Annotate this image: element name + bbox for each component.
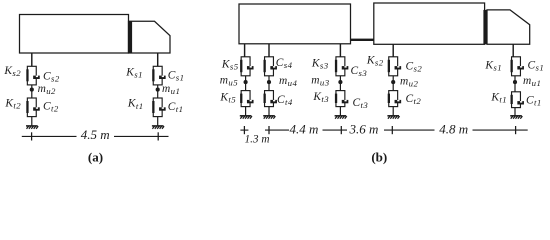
spring Ks2 + damper Cs2 unit box [27, 66, 36, 85]
spring Ks1 + damper Cs1 unit box [512, 57, 521, 76]
wire body to suspension axle 4 (fig b) [268, 44, 270, 57]
damper Ct2 cup [395, 100, 402, 103]
wire mass mu1 to tire unit (fig b) [514, 84, 516, 92]
unsprung mass mu4 (fig b) node [267, 80, 271, 84]
spring Kt4 thick bar [264, 94, 266, 103]
unsprung mass mu1 (fig b) node [513, 80, 517, 84]
dimension tick axle 2 (fig b) [391, 126, 393, 134]
spring Kt1 thick bar [511, 95, 513, 104]
wire tire unit to ground (fig b) [392, 107, 394, 116]
spring Ks1 + damper Cs1 unit box [153, 66, 162, 85]
wire mass mu1 to tire unit (fig a) [157, 91, 159, 98]
figure b trailer box body [239, 4, 351, 44]
dimension tick axle 5 (fig b) [243, 126, 245, 134]
dimension line 4.5 m (fig a) [22, 135, 77, 137]
wire body to suspension axle 2 (fig a) [31, 53, 33, 66]
spring Ks2 thick bar [388, 60, 390, 72]
svg-text:1.3 m: 1.3 m [244, 134, 269, 146]
wire tire unit to ground (fig a) [31, 117, 33, 126]
damper Cs3 cup [342, 66, 349, 69]
damper Cs2 cup [395, 66, 402, 69]
damper Cs5 cup [247, 66, 254, 69]
damper Ct1 cup [517, 101, 524, 104]
spring Kt2 + damper Ct2 unit box [389, 91, 398, 107]
spring Ks5 + damper Cs5 unit box [241, 57, 250, 76]
unsprung mass mu2 (fig b) node [391, 80, 395, 84]
figure b cab-tractor separator thick bar [483, 10, 487, 44]
wire mass mu2 to tire unit (fig b) [392, 84, 394, 91]
wire spring unit to mass mu5 (fig b) [245, 76, 247, 81]
damper Ct4 cup [270, 100, 277, 103]
spring Ks4 + damper Cs4 unit box [265, 57, 274, 76]
spring Ks2 + damper Cs2 unit box [389, 57, 398, 76]
dimension tick axle 1 (fig a) [157, 132, 159, 140]
wire spring unit to mass mu2 (fig a) [31, 85, 33, 88]
dimension tick axle 4 (fig b) [268, 126, 270, 134]
wire mass mu3 to tire unit (fig b) [339, 84, 341, 91]
svg-text:4.8 m: 4.8 m [439, 122, 468, 137]
spring Ks3 + damper Cs3 unit box [336, 57, 345, 76]
unsprung mass mu5 (fig b) node [244, 80, 248, 84]
dimension tick axle 2 (fig a) [31, 132, 33, 140]
wire spring unit to mass mu4 (fig b) [268, 76, 270, 81]
wire body to suspension axle 3 (fig b) [339, 44, 341, 57]
svg-text:4.4 m: 4.4 m [290, 122, 319, 137]
wire body to suspension axle 1 (fig a) [157, 53, 159, 66]
wire tire unit to ground (fig b) [268, 107, 270, 116]
ground axle 5 (fig b) [240, 115, 252, 117]
damper Ct2 cup [33, 107, 40, 110]
wire spring unit to mass mu3 (fig b) [339, 76, 341, 81]
spring Kt4 + damper Ct4 unit box [265, 91, 274, 107]
figure a cab outline [129, 21, 171, 53]
spring Kt3 + damper Ct3 unit box [336, 91, 345, 107]
wire spring unit to mass mu1 (fig a) [157, 85, 159, 88]
spring Kt5 + damper Ct5 unit box [241, 91, 250, 107]
wire spring unit to mass mu1 (fig b) [514, 76, 516, 81]
wire tire unit to ground (fig b) [339, 107, 341, 116]
figure a cab-body separator thick bar [128, 21, 132, 53]
figure a truck cargo box body [20, 15, 129, 54]
spring Ks5 thick bar [240, 60, 242, 72]
ground axle 1 (fig a) [152, 125, 164, 127]
wire body to suspension axle 2 (fig b) [392, 44, 394, 56]
spring Ks3 thick bar [335, 60, 337, 72]
spring Kt2 + damper Ct2 unit box [27, 98, 36, 117]
spring Kt1 + damper Ct1 unit box [153, 98, 162, 117]
wire mass mu4 to tire unit (fig b) [268, 84, 270, 91]
wire mass mu2 to tire unit (fig a) [31, 91, 33, 98]
spring Kt1 thick bar [152, 101, 154, 113]
figure b hitch thick bar [351, 39, 374, 41]
ground axle 1 (fig b) [510, 115, 522, 117]
ground axle 3 (fig b) [335, 115, 347, 117]
svg-text:4.5 m: 4.5 m [81, 127, 110, 142]
spring Kt3 thick bar [335, 94, 337, 103]
unsprung mass mu2 (fig a) node [30, 88, 34, 92]
spring Kt2 thick bar [26, 101, 28, 113]
figure b cab outline [487, 10, 530, 44]
spring Kt5 thick bar [240, 94, 242, 103]
wire tire unit to ground (fig b) [245, 107, 247, 116]
spring Kt2 thick bar [388, 94, 390, 103]
svg-text:(b): (b) [371, 149, 387, 164]
ground axle 2 (fig b) [387, 115, 399, 117]
wire mass mu5 to tire unit (fig b) [245, 84, 247, 91]
dimension line segments (fig b) [240, 129, 248, 131]
wire tire unit to ground (fig a) [157, 117, 159, 126]
spring Ks1 thick bar [152, 69, 154, 81]
damper Ct5 cup [247, 100, 254, 103]
ground axle 4 (fig b) [263, 115, 275, 117]
svg-text:3.6 m: 3.6 m [349, 122, 379, 137]
unsprung mass mu1 (fig a) node [156, 88, 160, 92]
damper Cs1 cup [517, 66, 524, 69]
spring Ks2 thick bar [26, 69, 28, 81]
spring Ks1 thick bar [511, 60, 513, 72]
spring Kt1 + damper Ct1 unit box [512, 92, 521, 108]
wire tire unit to ground (fig b) [514, 108, 516, 116]
dimension tick axle 1 (fig b) [515, 126, 517, 134]
svg-text:(a): (a) [88, 149, 103, 164]
wire spring unit to mass mu2 (fig b) [392, 76, 394, 81]
figure b tractor box body [374, 3, 485, 44]
damper Cs2 cup [33, 76, 40, 79]
unsprung mass mu3 (fig b) node [338, 80, 342, 84]
damper Ct3 cup [342, 100, 349, 103]
spring Ks4 thick bar [264, 60, 266, 72]
wire body to suspension axle 1 (fig b) [512, 44, 514, 57]
damper Cs4 cup [270, 66, 277, 69]
damper Ct1 cup [159, 107, 166, 110]
damper Cs1 cup [159, 76, 166, 79]
wire body to suspension axle 5 (fig b) [244, 44, 246, 57]
dimension tick axle 3 (fig b) [340, 126, 342, 134]
ground axle 2 (fig a) [26, 125, 38, 127]
